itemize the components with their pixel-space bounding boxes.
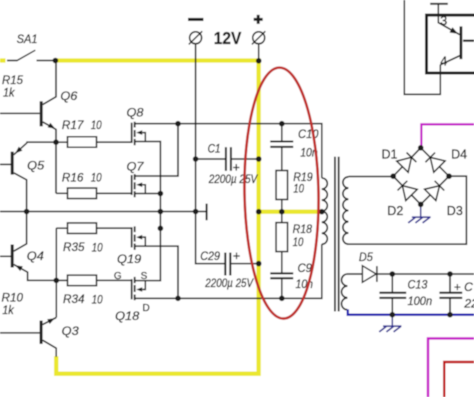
svg-text:22: 22 xyxy=(463,297,474,311)
junction drain rail top / Q7 xyxy=(175,121,181,127)
minus sign xyxy=(188,18,203,21)
transistor Q7 (MOSFET) xyxy=(131,175,133,195)
resistor R34 xyxy=(68,275,97,286)
arrow Q3 emitter xyxy=(47,318,55,324)
svg-text:1k: 1k xyxy=(3,86,15,100)
svg-text:C13: C13 xyxy=(408,277,428,291)
resistor R18 xyxy=(276,223,288,252)
wire Q5 base xyxy=(0,163,11,165)
junction C14 on blue xyxy=(447,312,453,318)
svg-text:G: G xyxy=(114,271,122,282)
wire Q4 collector to mid rail xyxy=(14,212,27,251)
junction C13 on blue xyxy=(390,312,396,318)
junction C9 on drain rail bottom xyxy=(279,296,285,302)
transformer secondary 1 winding xyxy=(343,177,349,244)
svg-text:C9: C9 xyxy=(298,261,313,275)
junction R19/R18 on yellow xyxy=(279,209,285,215)
svg-text:C29: C29 xyxy=(200,249,220,263)
wire C14 bottom stem xyxy=(449,298,451,315)
wire SA1 to node xyxy=(37,60,56,62)
svg-text:Q7: Q7 xyxy=(127,160,145,174)
svg-text:D2: D2 xyxy=(387,204,403,218)
wire C1 right xyxy=(232,158,259,160)
wire Q4 base xyxy=(0,255,11,257)
transistor Q18 (MOSFET mirrored) xyxy=(131,279,133,299)
resistor R19 xyxy=(276,171,288,200)
junction Q19 top xyxy=(158,226,164,232)
arrow Q4 emitter xyxy=(15,265,23,271)
svg-text:R34: R34 xyxy=(63,292,85,306)
wire C14 top stem xyxy=(449,274,451,293)
svg-text:R17: R17 xyxy=(62,118,85,132)
terminal plus slash xyxy=(252,31,265,44)
transistor Q5 base bar xyxy=(11,152,14,175)
capacitor C9 plates xyxy=(270,272,293,274)
transistor Q8 (MOSFET) xyxy=(131,123,133,143)
wire +12V yellow branch to transformer center tap xyxy=(259,210,322,214)
capacitor C14 plates xyxy=(439,292,462,294)
svg-text:3: 3 xyxy=(440,14,447,28)
svg-text:10: 10 xyxy=(92,292,103,306)
wire drain rail bottom (Q18/Q19 to C9 and transformer) xyxy=(135,244,321,298)
svg-text:D3: D3 xyxy=(447,204,463,218)
junction Q5/Q4 collectors on mid rail xyxy=(24,209,30,215)
wire Q3 base xyxy=(0,332,40,334)
wire optocoupler left return loop xyxy=(404,0,440,94)
transistor Q6 base bar xyxy=(40,101,43,126)
diode D2 xyxy=(397,180,418,200)
transistor Q3 base bar xyxy=(40,321,43,344)
wire C9 bottom stem xyxy=(281,278,283,298)
wire R34 left xyxy=(56,279,67,281)
diode D3 xyxy=(425,180,446,201)
wire Q4 emitter xyxy=(14,264,57,280)
ground at C13 xyxy=(391,315,393,327)
wire Q6 emitter xyxy=(43,122,56,142)
svg-text:2200µ 25V: 2200µ 25V xyxy=(204,276,254,290)
terminal minus circle xyxy=(190,32,202,44)
svg-text:Q6: Q6 xyxy=(60,89,77,103)
wire +12V yellow main loop: top rail, right vertical, bottom rail, left riser xyxy=(55,61,258,374)
switch SA1 blade xyxy=(17,50,35,60)
wire bridge diamond edges xyxy=(393,148,449,205)
junction bridge left node xyxy=(390,173,396,179)
wire R35 left xyxy=(56,227,67,229)
wire Q19 bottom to drain rail bottom xyxy=(135,246,178,298)
svg-text:4: 4 xyxy=(440,55,447,69)
wire R17 right to Q8 gate xyxy=(97,141,132,143)
wire R35 right to Q19 gate xyxy=(97,227,132,229)
wire mid source rail y=211.5 xyxy=(0,211,207,213)
svg-text:S: S xyxy=(141,271,148,282)
svg-text:+ C: + C xyxy=(454,280,473,294)
resistor R17 xyxy=(68,137,97,148)
svg-text:Q4: Q4 xyxy=(27,249,44,263)
annotation red ellipse highlight xyxy=(242,67,320,319)
wire drain rail top (Q8/Q7 drains to C10 and transformer) xyxy=(135,124,321,178)
svg-text:10: 10 xyxy=(293,235,304,249)
terminal end-bar of mid rail xyxy=(206,204,208,221)
svg-text:R16: R16 xyxy=(62,170,84,184)
svg-text:100n: 100n xyxy=(408,294,433,308)
wire R16 left xyxy=(56,192,68,194)
capacitor C13 plates xyxy=(379,292,406,294)
terminal minus slash xyxy=(189,31,202,44)
wire R19 bottom stem xyxy=(281,200,283,212)
transistor Q4 base bar xyxy=(11,245,14,268)
switch SA1 fixed contact xyxy=(7,60,18,62)
svg-text:D4: D4 xyxy=(451,147,467,161)
terminal plus circle xyxy=(253,32,265,44)
optocoupler phototransistor xyxy=(438,15,459,34)
terminal end-bar above optocoupler xyxy=(430,3,448,5)
wire Q5 emitter diagonal+horizontal xyxy=(14,142,56,155)
svg-text:Q3: Q3 xyxy=(62,324,79,338)
wire C1 left xyxy=(196,158,225,160)
optocoupler base stub xyxy=(463,40,474,42)
wire C29 right xyxy=(231,263,259,265)
junction C14 top xyxy=(447,271,453,277)
svg-text:R18: R18 xyxy=(293,222,313,236)
wire secondary1 bottom loop to bridge right node xyxy=(349,176,467,244)
resistor R16 xyxy=(68,188,97,199)
junction bridge top node xyxy=(418,145,424,151)
junction C1 on yellow xyxy=(256,156,262,162)
resistor R35 xyxy=(68,223,97,234)
diode D5 xyxy=(362,266,376,283)
wire R34 right to Q18 gate xyxy=(97,279,132,281)
wire R16 right to Q7 gate xyxy=(97,192,132,194)
svg-text:Q8: Q8 xyxy=(127,105,144,119)
svg-text:12V: 12V xyxy=(214,28,242,48)
junction node B Q4 emitter/R34 xyxy=(54,278,60,284)
junction C29 on yellow xyxy=(256,261,262,267)
wire C13 top stem xyxy=(391,274,393,293)
wire C13 bottom stem xyxy=(391,298,393,315)
capacitor C29 plates xyxy=(224,253,226,276)
wire +12V yellow input stub at left edge xyxy=(0,58,6,62)
transformer secondary 2 winding xyxy=(342,274,348,310)
wire Q6 base xyxy=(0,112,40,114)
svg-text:R35: R35 xyxy=(63,240,85,254)
svg-text:10: 10 xyxy=(91,118,102,132)
wire red bottom right xyxy=(444,362,474,397)
wire Q3 emitter up to R34 node xyxy=(43,318,57,325)
junction C10 on drain rail xyxy=(279,121,285,127)
wire Q7 source join xyxy=(135,193,160,195)
svg-text:C1: C1 xyxy=(208,142,221,156)
wire plus terminal to yellow node xyxy=(258,44,260,61)
junction bridge right node xyxy=(446,173,452,179)
junction minus rail on mid rail xyxy=(193,209,199,215)
wire magenta bottom right xyxy=(428,338,474,397)
arrow Q6 emitter xyxy=(48,123,56,129)
wire Q8 source down / Q7 source / to mid rail and Q19/Q18 xyxy=(135,142,160,281)
junction bridge bottom node xyxy=(418,202,424,208)
wire node B vertical (R35-R34-Q3) xyxy=(55,228,57,317)
transformer primary winding xyxy=(322,178,328,244)
wire Q3 collector to yellow xyxy=(43,340,57,357)
wire R18 bottom stem xyxy=(281,252,283,274)
wire R18 top stem xyxy=(281,212,283,223)
junction plus terminal on yellow xyxy=(256,58,262,64)
wire minus rail vertical x=195.6 down to C29 xyxy=(196,44,226,264)
junction sources on mid rail xyxy=(158,209,164,215)
diode D1 xyxy=(397,152,418,172)
svg-text:10: 10 xyxy=(92,240,103,254)
opto-coupler U1 body xyxy=(427,15,474,73)
wire blue secondary2 return rail xyxy=(348,309,474,314)
wire optocoupler pin3 stub xyxy=(437,4,439,15)
svg-text:10: 10 xyxy=(91,170,102,184)
junction SA1/Q6/+12V xyxy=(53,58,59,64)
wire C10-R19 stem xyxy=(281,147,283,171)
junction D5 out / C13 xyxy=(390,271,396,277)
plus sign xyxy=(254,18,263,21)
diode D4 xyxy=(425,152,446,173)
svg-text:1k: 1k xyxy=(2,303,14,317)
svg-text:SA1: SA1 xyxy=(17,32,38,46)
wire node A vertical to R16 xyxy=(55,142,57,193)
svg-text:C10: C10 xyxy=(298,127,319,141)
svg-text:D5: D5 xyxy=(359,250,373,264)
svg-text:D: D xyxy=(143,303,150,314)
capacitor C10 plates xyxy=(270,141,293,143)
transformer core xyxy=(334,157,336,312)
svg-text:D1: D1 xyxy=(382,147,398,161)
wire Q6 collector to +12V node xyxy=(43,61,56,105)
wire Q7 drain up to rail xyxy=(135,124,178,176)
wire R17 left xyxy=(56,141,68,143)
svg-text:Q5: Q5 xyxy=(27,158,44,172)
wire C10 top stem xyxy=(281,124,283,142)
svg-text:2200µ 25V: 2200µ 25V xyxy=(208,172,259,186)
transistor Q19 (MOSFET) xyxy=(131,227,133,247)
junction Q7/Q8 sources xyxy=(158,191,164,197)
capacitor C1 plates xyxy=(225,147,227,171)
junction C1 on minus rail xyxy=(193,156,199,162)
wire secondary1 top to bridge left node xyxy=(349,176,394,178)
wire magenta from bridge plus output xyxy=(421,124,474,147)
junction node A emitters/R17 xyxy=(53,139,59,145)
wire secondary2 top to D5 xyxy=(348,273,363,275)
ground at bridge bottom node xyxy=(420,204,422,217)
junction Q19 on drain rail bottom xyxy=(175,296,181,302)
wire D5 output rail xyxy=(377,273,474,275)
arrow Q5 emitter xyxy=(15,147,22,154)
svg-text:10: 10 xyxy=(293,181,304,195)
svg-text:+: + xyxy=(233,249,240,263)
junction transformer center tap xyxy=(319,209,325,215)
svg-text:Q19: Q19 xyxy=(117,252,141,266)
junction yellow tee xyxy=(256,209,262,215)
wire Q5 collector xyxy=(14,173,27,211)
svg-text:Q18: Q18 xyxy=(115,309,139,323)
